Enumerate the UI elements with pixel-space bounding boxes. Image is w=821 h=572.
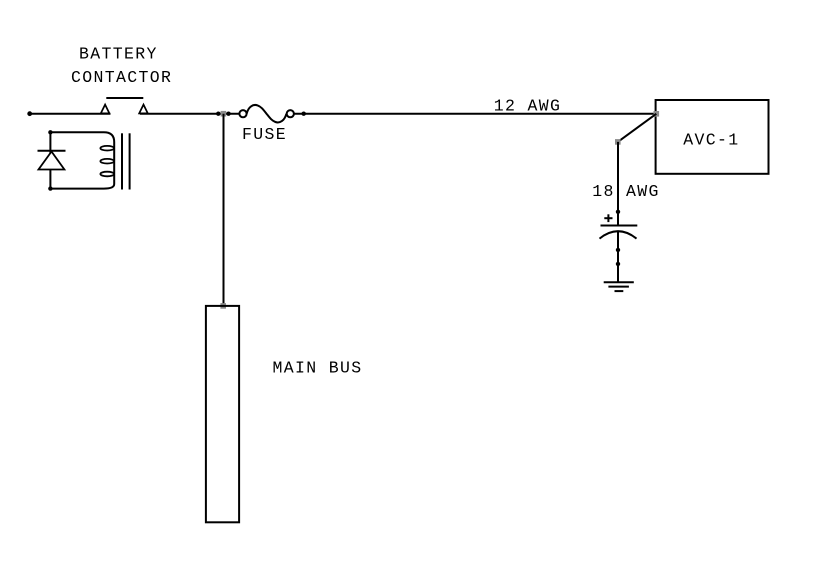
capacitor C1 plus sign: [604, 217, 612, 219]
ground bar 3: [615, 290, 624, 292]
wire capacitor to ground: [617, 232, 619, 283]
svg-text:18 AWG: 18 AWG: [592, 182, 660, 201]
coil left branch wire (diode branch): [49, 132, 51, 188]
diode CR1 triangle: [39, 152, 65, 170]
wire left terminal to contactor: [30, 113, 111, 115]
svg-text:MAIN BUS: MAIN BUS: [273, 359, 363, 378]
junction gray square at fuse tap: [221, 111, 227, 117]
node dot right of fuse: [302, 112, 306, 116]
junction gray square at AVC-1 pin: [654, 111, 660, 117]
coil loop 2: [100, 159, 114, 164]
fuse F1 left cap circle: [239, 110, 246, 117]
wire contactor to junction/fuse: [140, 113, 240, 115]
contactor fixed contact triangle left: [101, 105, 110, 114]
node dot left of junction: [216, 112, 220, 116]
wire diagonal AVC-1 to capacitor branch: [618, 114, 657, 142]
fuse F1 element squiggle: [247, 105, 287, 122]
node dot right of junction: [226, 112, 230, 116]
junction gray square at main bus top: [220, 303, 226, 309]
main bus bar rectangle: [206, 306, 239, 522]
coil body outline K1: [50, 132, 114, 188]
svg-text:FUSE: FUSE: [242, 125, 287, 144]
fuse F1 right cap circle: [287, 110, 294, 117]
coil core line 2: [129, 133, 131, 189]
node coil bottom-left dot: [48, 186, 52, 190]
wire down to capacitor: [617, 142, 619, 226]
node coil top-left dot: [48, 130, 52, 134]
contactor fixed contact triangle right: [139, 105, 148, 114]
capacitor C1 top plate: [601, 225, 638, 227]
svg-text:AVC-1: AVC-1: [683, 130, 739, 149]
node left terminal dot: [27, 111, 32, 116]
node dot above capacitor: [616, 210, 620, 214]
node dot above ground: [616, 262, 620, 266]
diode CR1 cathode bar: [38, 150, 66, 152]
junction gray square at bend: [615, 139, 621, 145]
coil loop 1: [100, 146, 114, 151]
svg-text:BATTERY: BATTERY: [79, 45, 158, 64]
svg-text:CONTACTOR: CONTACTOR: [71, 68, 172, 87]
box AVC-1: [656, 100, 769, 174]
coil core line 1: [121, 133, 123, 189]
ground bar 1: [604, 281, 634, 283]
ground bar 2: [608, 286, 629, 288]
capacitor C1 curved plate: [600, 231, 637, 238]
svg-text:12 AWG: 12 AWG: [494, 96, 562, 115]
wire fuse to AVC-1: [294, 113, 656, 115]
node dot below capacitor: [616, 248, 620, 252]
wire junction down to main bus: [223, 114, 225, 306]
coil loop 3: [100, 172, 114, 177]
contactor movable bar: [106, 97, 143, 99]
